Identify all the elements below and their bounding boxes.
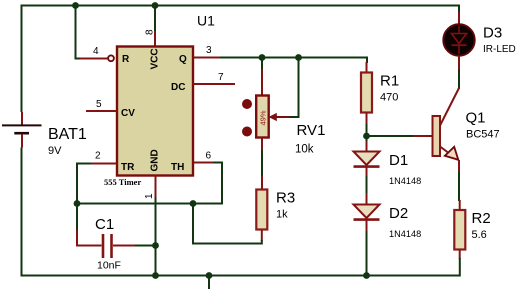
svg-text:BC547: BC547 xyxy=(466,129,500,141)
node RV1 top junction xyxy=(259,54,266,61)
svg-text:5: 5 xyxy=(96,99,102,110)
svg-text:1N4148: 1N4148 xyxy=(389,176,421,186)
wire VCC to D3 xyxy=(458,5,460,14)
wire pin4 red stub xyxy=(80,58,108,60)
wire pin3 Q output xyxy=(193,57,220,59)
svg-text:1k: 1k xyxy=(276,209,288,221)
wire top rail xyxy=(22,5,460,7)
wire left rail upper xyxy=(21,5,23,113)
svg-text:555 Timer: 555 Timer xyxy=(104,177,141,187)
svg-text:R2: R2 xyxy=(472,210,491,227)
svg-text:9V: 9V xyxy=(48,145,62,157)
wire emitter to R2 xyxy=(458,172,460,201)
svg-text:10nF: 10nF xyxy=(97,260,121,272)
wire pin1 GND xyxy=(155,175,157,198)
svg-text:TR: TR xyxy=(121,162,135,173)
svg-text:TH: TH xyxy=(171,162,184,173)
diode D1 xyxy=(354,136,422,186)
svg-text:Q: Q xyxy=(179,54,187,65)
svg-text:R: R xyxy=(122,54,130,65)
wire left rail lower xyxy=(21,148,23,275)
svg-text:7: 7 xyxy=(218,72,224,83)
svg-text:R3: R3 xyxy=(276,190,295,207)
svg-text:6: 6 xyxy=(206,151,212,162)
svg-text:D3: D3 xyxy=(483,25,502,42)
wire pin2 TR xyxy=(90,163,117,165)
node wiper junction xyxy=(295,54,302,61)
wire base xyxy=(367,135,415,137)
wire D2 to rail xyxy=(366,231,368,276)
battery BAT1 xyxy=(2,112,87,157)
node D2 rail junction xyxy=(363,272,370,279)
node ground stub xyxy=(206,272,213,279)
wire R2 to rail xyxy=(458,258,460,276)
resistor R1 xyxy=(361,57,399,137)
node pin4 branch xyxy=(76,6,108,59)
svg-text:4: 4 xyxy=(93,46,99,57)
node GND rail junction xyxy=(152,272,159,279)
pin 4 bubble xyxy=(108,55,114,61)
svg-text:RV1: RV1 xyxy=(297,122,326,139)
svg-text:D1: D1 xyxy=(389,152,408,169)
transistor Q1 xyxy=(433,88,500,173)
node pin8 branch xyxy=(152,2,159,9)
svg-text:8: 8 xyxy=(145,29,156,35)
wire bottom rail xyxy=(21,275,461,277)
node R1/D1/base junction xyxy=(363,133,370,140)
svg-text:U1: U1 xyxy=(197,13,215,29)
op IC U1 555 body xyxy=(117,47,193,176)
wire between D1 and D2 xyxy=(366,176,368,194)
svg-text:10k: 10k xyxy=(295,144,314,156)
svg-text:1: 1 xyxy=(144,193,155,199)
svg-text:GND: GND xyxy=(150,149,161,171)
wire pin8 red stub xyxy=(154,31,156,46)
svg-text:1N4148: 1N4148 xyxy=(389,229,421,239)
wire D3 to collector xyxy=(458,56,460,71)
node TR junction xyxy=(74,200,81,207)
diode D2 xyxy=(354,193,422,239)
resistor R2 xyxy=(454,200,490,259)
svg-text:D2: D2 xyxy=(389,205,408,222)
svg-text:470: 470 xyxy=(380,92,398,104)
svg-text:R1: R1 xyxy=(380,73,399,90)
svg-text:Q1: Q1 xyxy=(466,109,486,126)
svg-text:5.6: 5.6 xyxy=(472,229,487,241)
svg-text:2: 2 xyxy=(95,151,101,162)
wire pin6 TH xyxy=(193,162,214,164)
potentiometer RV1 xyxy=(242,57,325,156)
wire TR-TH link xyxy=(77,203,222,205)
capacitor C1 xyxy=(77,204,156,272)
wire pin7 DC stub xyxy=(193,83,235,85)
node C1 right junction xyxy=(152,242,159,249)
svg-text:C1: C1 xyxy=(95,216,114,233)
svg-text:49%: 49% xyxy=(259,110,268,125)
node R3 return junction xyxy=(190,200,197,207)
svg-text:DC: DC xyxy=(171,82,185,93)
svg-text:IR-LED: IR-LED xyxy=(483,44,516,55)
LED D3 xyxy=(443,24,515,55)
svg-text:3: 3 xyxy=(206,45,212,56)
svg-text:VCC: VCC xyxy=(150,48,161,69)
svg-text:BAT1: BAT1 xyxy=(48,126,87,143)
resistor R3 xyxy=(193,150,295,244)
wire pin5 CV stub xyxy=(86,110,117,112)
svg-text:CV: CV xyxy=(121,108,135,119)
